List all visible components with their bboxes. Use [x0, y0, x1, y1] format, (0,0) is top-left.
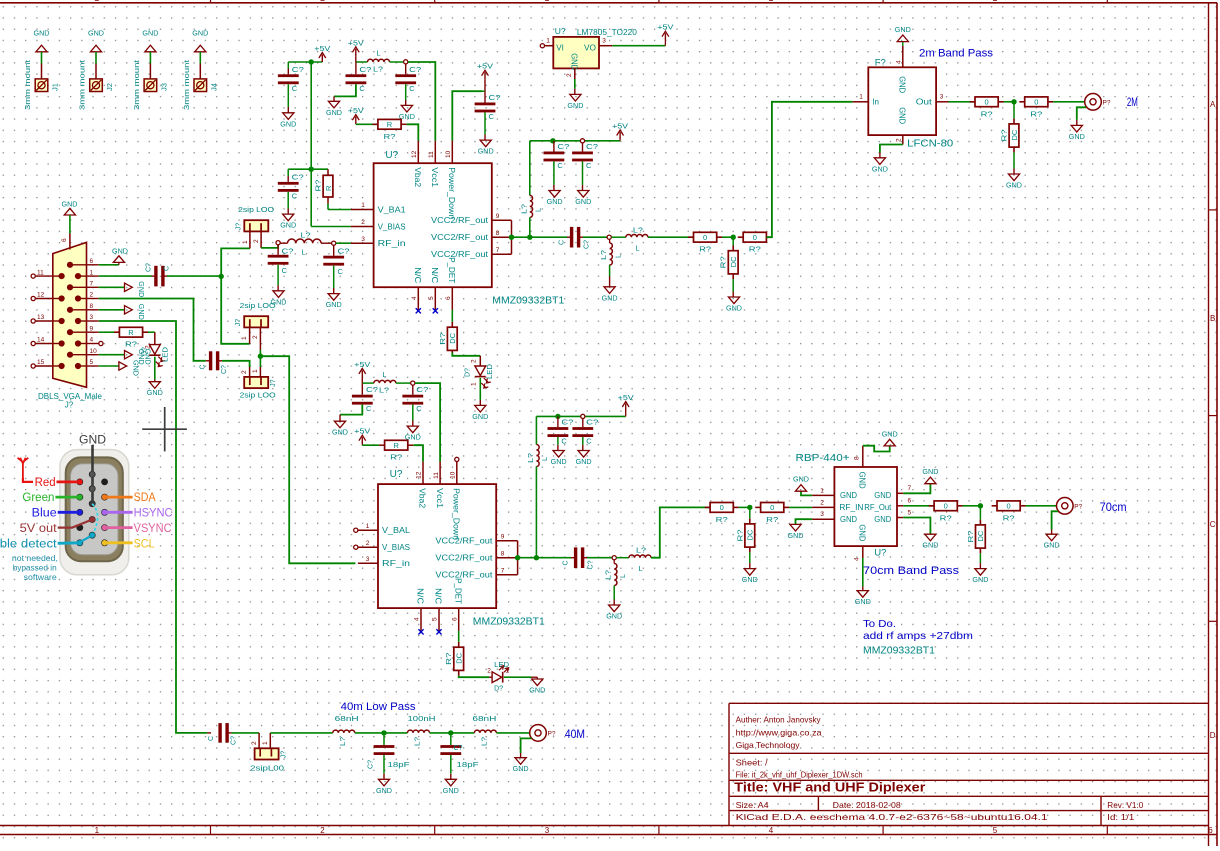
- node junction feed inductor: [527, 235, 532, 240]
- svg-text:GND: GND: [131, 360, 140, 377]
- wire DB15 pin6 to GND flag: [99, 262, 119, 264]
- svg-text:1: 1: [506, 668, 510, 675]
- inductor L? (2m series): [611, 225, 648, 252]
- svg-text:0: 0: [770, 503, 774, 512]
- svg-text:2: 2: [366, 540, 370, 547]
- svg-text:3: 3: [545, 826, 550, 835]
- capacitor C? (pin2 coupling C7): [200, 351, 229, 374]
- title block text: title: [734, 781, 925, 795]
- ground flag at RBP pin 1: [793, 475, 812, 496]
- svg-text:C?: C?: [561, 418, 573, 427]
- svg-text:L: L: [639, 564, 643, 573]
- ground below rail B cap1: [547, 191, 564, 207]
- label 70cm Band Pass: [863, 565, 960, 577]
- svg-text:GND: GND: [147, 388, 164, 397]
- F? pin 3 Out stub: [936, 94, 948, 102]
- svg-text:R?: R?: [384, 132, 396, 141]
- wire junction up to jumper J1 pin1: [221, 231, 250, 276]
- wire resistor to LED D?: [148, 332, 155, 344]
- svg-text:R?: R?: [313, 180, 322, 192]
- svg-text:9: 9: [90, 325, 94, 332]
- svg-text:1: 1: [546, 38, 550, 45]
- ground flag at DB15 pin 6: [112, 246, 129, 262]
- svg-text:C: C: [416, 404, 422, 413]
- svg-text:2: 2: [252, 335, 259, 339]
- photo HSYNC label: [102, 508, 173, 520]
- U1 left pins 1,2,3: [351, 202, 406, 248]
- svg-text:RBP-440+: RBP-440+: [796, 453, 850, 464]
- svg-text:R?: R?: [1003, 513, 1015, 522]
- svg-text:14: 14: [37, 337, 45, 344]
- svg-text:GND: GND: [898, 76, 907, 93]
- svg-text:GND: GND: [79, 435, 106, 447]
- svg-text:11: 11: [37, 269, 44, 276]
- svg-text:8: 8: [496, 230, 500, 237]
- svg-text:2sip LOO: 2sip LOO: [238, 205, 274, 214]
- node junction rail B: [550, 138, 555, 143]
- svg-text:3: 3: [940, 94, 944, 101]
- svg-text:software: software: [24, 572, 57, 582]
- inductor L? (U1 +5V feed choke): [519, 141, 542, 237]
- photo SDA label: [102, 492, 156, 504]
- svg-text:DC: DC: [448, 332, 457, 343]
- label 2m Band Pass: [919, 48, 994, 60]
- resistor R? (2m series 0 ohm 1): [688, 232, 722, 253]
- wire junction down to jumper J3 pin1: [259, 356, 261, 377]
- node junction U1 outputs tied: [509, 235, 514, 240]
- svg-text:4: 4: [769, 826, 774, 835]
- wire RBP RF_Out to resistor: [903, 505, 934, 507]
- svg-text:0: 0: [985, 98, 989, 107]
- svg-text:3: 3: [361, 236, 365, 243]
- title block text: rev: [1107, 800, 1143, 810]
- wire F? out to resistor: [949, 101, 976, 103]
- pin circle rail B cap2: [580, 139, 584, 143]
- svg-text:3mm mount: 3mm mount: [80, 60, 87, 110]
- capacitor C? 18pF (40m C1): [368, 733, 411, 779]
- wire bracket to feed junction: [512, 236, 530, 238]
- svg-text:0: 0: [1034, 98, 1038, 107]
- svg-text:L: L: [635, 244, 639, 253]
- power +5V (rail C): [618, 393, 634, 416]
- wire junction down to V_BIAS node: [310, 62, 312, 169]
- svg-text:GND: GND: [443, 786, 460, 795]
- connector P? 70cm BNC: [1057, 498, 1083, 515]
- svg-text:6: 6: [445, 296, 452, 300]
- svg-text:VCC2/RF_out: VCC2/RF_out: [431, 250, 489, 259]
- svg-text:2m Band Pass: 2m Band Pass: [919, 48, 994, 60]
- svg-text:N/C: N/C: [413, 267, 422, 283]
- RBP pin 8 stub top: [854, 446, 863, 467]
- ground below 2M BNC: [1069, 125, 1086, 140]
- svg-text:LFCN-80: LFCN-80: [907, 139, 953, 150]
- photo VGA connector shell: [60, 450, 129, 575]
- svg-text:6: 6: [90, 258, 94, 265]
- svg-text:J3: J3: [159, 83, 168, 91]
- svg-text:R?: R?: [981, 109, 993, 118]
- wire LED to ground: [504, 677, 538, 679]
- svg-text:GND: GND: [332, 428, 349, 437]
- svg-text:4: 4: [90, 337, 94, 344]
- svg-text:GND: GND: [922, 541, 939, 550]
- ground below rail C cap2: [576, 451, 593, 467]
- svg-text:RF_IN: RF_IN: [839, 503, 863, 512]
- op-amp U? MMZ09332BT1 (upper amplifier U1) body: [374, 150, 565, 307]
- svg-text:C?: C?: [588, 560, 595, 569]
- svg-text:70cm Band Pass: 70cm Band Pass: [863, 565, 960, 577]
- svg-text:GND: GND: [874, 515, 891, 524]
- svg-text:V_BA1: V_BA1: [378, 205, 407, 214]
- svg-text:6: 6: [908, 498, 912, 505]
- svg-text:R?: R?: [735, 530, 744, 542]
- svg-text:GND: GND: [874, 491, 891, 500]
- power +5V (LM7805 output): [657, 23, 673, 46]
- svg-text:A: A: [1210, 100, 1216, 109]
- resistor R? (U2 P_DET series DC): [444, 642, 463, 676]
- svg-text:R?: R?: [125, 340, 137, 349]
- power +5V (rail A): [314, 44, 330, 62]
- wire to junction 70cm out: [963, 505, 981, 507]
- U1 right pins 9,8,7 VCC2/RF_out: [431, 213, 512, 259]
- svg-text:12: 12: [37, 292, 45, 299]
- svg-text:8: 8: [854, 456, 861, 460]
- svg-text:L?: L?: [605, 570, 612, 580]
- wire VO to +5V: [612, 45, 665, 47]
- photo dashed bypass curve: [92, 504, 97, 536]
- svg-text:Sheet: /: Sheet: /: [736, 757, 769, 767]
- resistor R? (2m out series 2): [1019, 97, 1053, 118]
- U2 top pins 12,11,10: [416, 462, 461, 540]
- svg-text:C: C: [557, 161, 563, 170]
- svg-text:Vcc1: Vcc1: [435, 488, 444, 509]
- svg-text:+5V: +5V: [354, 427, 370, 436]
- svg-text:+5V: +5V: [348, 38, 364, 47]
- wire inductor to U1 pin 3: [336, 242, 351, 244]
- photo note not needed: [12, 553, 58, 582]
- resistor R? (2m out shunt DC): [1000, 102, 1019, 174]
- resistor R? (70cm out shunt DC): [966, 506, 985, 569]
- U2 left pins 1,2,3: [354, 523, 411, 568]
- ground below PowerDown cap: [478, 140, 495, 156]
- wire +5V rail C: [536, 415, 558, 417]
- svg-text:VI: VI: [556, 44, 564, 53]
- svg-text:0: 0: [703, 233, 707, 242]
- svg-text:3mm mount: 3mm mount: [134, 60, 141, 110]
- svg-text:3mm mount: 3mm mount: [25, 60, 32, 110]
- svg-text:R?: R?: [699, 245, 711, 254]
- svg-text:C: C: [200, 364, 207, 369]
- node junction pin1 net: [219, 274, 224, 279]
- svg-text:GND: GND: [972, 575, 989, 584]
- svg-text:GND: GND: [62, 199, 79, 208]
- ground below 70cm shunt inductor: [606, 605, 623, 621]
- svg-text:DC: DC: [746, 529, 755, 540]
- svg-text:GND: GND: [529, 686, 546, 695]
- svg-text:Id: 1/1: Id: 1/1: [1107, 812, 1134, 822]
- svg-text:L?: L?: [373, 65, 383, 74]
- ground flag at DB15 pin 10: [99, 349, 153, 366]
- svg-text:C: C: [561, 437, 567, 446]
- svg-text:J?: J?: [235, 223, 242, 231]
- svg-text:GND: GND: [376, 786, 393, 795]
- svg-text:C?: C?: [282, 246, 294, 255]
- svg-text:C?: C?: [557, 142, 569, 151]
- editor crosshair cursor: [142, 407, 187, 451]
- svg-text:HSYNC: HSYNC: [134, 508, 173, 520]
- photo SCL label: [102, 538, 155, 550]
- svg-text:GND: GND: [1006, 181, 1023, 190]
- photo Green label: [22, 492, 82, 504]
- svg-text:DC: DC: [455, 652, 464, 663]
- svg-text:3: 3: [820, 511, 824, 518]
- svg-text:C?: C?: [454, 745, 463, 752]
- pin circle 2m node: [607, 235, 611, 239]
- svg-text:40m Low Pass: 40m Low Pass: [341, 701, 417, 713]
- svg-text:R?: R?: [390, 453, 402, 462]
- svg-text:C?: C?: [368, 760, 375, 769]
- wire RBP pin4 to ground: [862, 558, 864, 591]
- op-amp U? MMZ09332BT1 (lower amplifier U2) body: [378, 469, 545, 628]
- svg-text:R?: R?: [719, 256, 728, 268]
- ground below U1 LED: [472, 405, 489, 421]
- svg-text:GND: GND: [726, 304, 743, 313]
- resistor R? (70cm out series 1): [929, 501, 963, 522]
- photo VGA pin holes: [76, 471, 108, 546]
- LED D? (U2 power detect): [487, 662, 509, 693]
- svg-text:0: 0: [720, 503, 724, 512]
- svg-text:Blue: Blue: [32, 508, 57, 520]
- svg-text:http://www.giga.co.za: http://www.giga.co.za: [736, 727, 822, 737]
- no-connect X at U2 pin 5: [436, 629, 441, 634]
- svg-text:Vba2: Vba2: [418, 488, 427, 509]
- wire bracket to feed junction U2: [518, 557, 537, 559]
- svg-text:GND: GND: [567, 101, 584, 110]
- svg-text:U?: U?: [555, 26, 566, 36]
- ground GND above DB15: [62, 199, 79, 233]
- svg-text:C?: C?: [292, 172, 304, 181]
- title block: [729, 703, 1209, 825]
- connector J? DBLS_VGA_Male body: [53, 242, 87, 387]
- capacitor C? (40m input coupling): [208, 723, 238, 745]
- power +5V (filter B): [348, 38, 364, 56]
- jumper J? 2sip LOO (middle): [235, 301, 276, 340]
- svg-text:C: C: [208, 736, 215, 741]
- svg-text:L: L: [376, 49, 380, 58]
- svg-text:VCC2/RF_out: VCC2/RF_out: [431, 216, 489, 225]
- wire U1 pin10 PowerDown to +5V node: [452, 91, 482, 141]
- wire filtered +5V to U1 pin 11 Vcc1: [408, 62, 435, 141]
- svg-text:Title: VHF and UHF Diplexer: Title: VHF and UHF Diplexer: [734, 781, 925, 795]
- photo Red label: [35, 477, 83, 489]
- wire RBP pin8 to ground flag: [863, 446, 890, 452]
- title block text: kicad version: [736, 812, 1048, 822]
- wire LED to ground: [154, 357, 156, 382]
- svg-text:DC: DC: [729, 256, 738, 267]
- svg-text:C: C: [282, 266, 288, 275]
- wire DB15 pin9 to resistor: [99, 331, 115, 333]
- svg-text:R: R: [128, 328, 134, 337]
- svg-text:2: 2: [90, 292, 94, 299]
- svg-text:V_BAL: V_BAL: [382, 526, 411, 535]
- svg-text:L: L: [620, 574, 627, 578]
- svg-text:D?: D?: [494, 686, 503, 693]
- svg-text:GND: GND: [922, 467, 939, 476]
- svg-text:2: 2: [566, 73, 573, 77]
- svg-text:Vcc1: Vcc1: [430, 167, 439, 188]
- resistor R? (Vba2 feed, value R): [356, 119, 407, 140]
- svg-text:MMZ09332BT1: MMZ09332BT1: [473, 616, 545, 628]
- wire filtered +5V to U2 pin 11: [415, 383, 440, 462]
- svg-text:GND: GND: [576, 457, 593, 466]
- capacitor C? (rail B decoupling 1): [544, 141, 570, 191]
- svg-text:P_DET: P_DET: [453, 578, 462, 604]
- svg-text:100nH: 100nH: [408, 714, 436, 723]
- wire 2m chain up to filter F? input: [766, 102, 852, 237]
- inductor L? (U1 RF_in series): [280, 230, 331, 256]
- title block text: id: [1107, 812, 1134, 822]
- svg-text:SCL: SCL: [134, 538, 156, 550]
- svg-text:5V out: 5V out: [20, 523, 58, 535]
- wire R to U1 pin 12 Vba2: [407, 124, 419, 140]
- svg-text:+5V: +5V: [612, 122, 628, 131]
- svg-text:C: C: [1210, 520, 1216, 529]
- svg-text:10: 10: [445, 150, 452, 158]
- svg-text:68nH: 68nH: [335, 714, 359, 723]
- svg-text:11: 11: [428, 151, 435, 158]
- svg-text:L?: L?: [601, 250, 608, 260]
- DB15 left pins 11-15: [31, 269, 53, 368]
- svg-text:ble detect: ble detect: [0, 538, 58, 550]
- RBP pin 1 stub: [812, 487, 834, 495]
- svg-text:10: 10: [90, 348, 98, 355]
- jumper J? 2sip LOO (bottom): [240, 369, 278, 399]
- capacitor C? (2m coupling): [559, 227, 591, 249]
- label 2M: [1127, 95, 1138, 109]
- ground below 40m C1: [376, 779, 393, 795]
- ground below 40M BNC: [513, 758, 530, 774]
- svg-text:D?: D?: [464, 368, 471, 377]
- svg-text:2sipL00: 2sipL00: [250, 764, 284, 773]
- title block text: sheet: [736, 757, 769, 767]
- svg-text:18pF: 18pF: [457, 760, 480, 769]
- ground below cap rail A: [280, 113, 297, 129]
- capacitor C? (V_BA filter): [278, 169, 311, 214]
- ground below F? pin2: [872, 158, 889, 174]
- svg-text:GND: GND: [547, 197, 564, 206]
- wire coupling cap to node: [584, 557, 613, 559]
- node junction +5V rail A: [309, 59, 314, 64]
- node junction U2 outputs tied: [515, 555, 520, 560]
- svg-text:VCC2/RF_out: VCC2/RF_out: [435, 554, 493, 563]
- capacitor C? (rail C decoupling 2): [572, 418, 598, 451]
- svg-text:2sip LOO: 2sip LOO: [240, 390, 276, 399]
- svg-text:MMZ09332BT1: MMZ09332BT1: [863, 644, 935, 656]
- regulator U? LM7805_TO220 body: [553, 26, 637, 70]
- svg-text:0: 0: [753, 233, 757, 242]
- svg-text:C: C: [489, 112, 495, 121]
- node junction 40m node1: [381, 730, 386, 735]
- svg-text:4: 4: [414, 617, 421, 621]
- mounting hole J2: [80, 29, 115, 111]
- resistor R? (70cm shunt DC): [735, 507, 754, 568]
- node junction selected-RF net: [258, 354, 263, 359]
- svg-text:N/C: N/C: [416, 588, 425, 604]
- svg-text:+5V: +5V: [477, 62, 493, 71]
- capacitor C? (70cm coupling): [563, 547, 595, 569]
- inductor L? (U2 +5V filter): [362, 370, 410, 394]
- svg-text:GND: GND: [742, 575, 759, 584]
- node junction 70cm out: [978, 503, 983, 508]
- svg-text:GND: GND: [858, 524, 867, 541]
- wire to RBP-440+ RF_IN: [789, 506, 812, 508]
- svg-text:+5V: +5V: [618, 393, 634, 402]
- wire to 70cm connector: [1026, 505, 1058, 507]
- svg-text:B: B: [1210, 314, 1215, 323]
- title block text: size/date: [736, 800, 901, 810]
- svg-text:2: 2: [251, 741, 258, 745]
- svg-text:C: C: [366, 404, 372, 413]
- photo cable detect label: [0, 532, 95, 550]
- wire cap to jumper J4: [228, 733, 259, 748]
- svg-text:U?: U?: [390, 469, 403, 480]
- svg-text:12: 12: [416, 471, 423, 479]
- photo GND label and lead: [79, 435, 106, 507]
- wire resistor to U1 pin 1: [328, 204, 351, 210]
- svg-text:1: 1: [366, 523, 370, 530]
- svg-text:KiCad E.D.A. eeschema 4.0.7-e: KiCad E.D.A. eeschema 4.0.7-e2-6376~58~u…: [736, 812, 1048, 822]
- svg-text:J2: J2: [105, 83, 114, 91]
- ground below rail B cap2: [575, 191, 592, 207]
- svg-text:7: 7: [496, 247, 500, 254]
- inductor L? (70cm shunt to ground): [605, 560, 627, 605]
- svg-text:3: 3: [602, 38, 606, 45]
- node junction U2 feed inductor: [534, 555, 539, 560]
- svg-text:C?: C?: [409, 65, 421, 74]
- wire rail C to +5V arrow: [558, 415, 626, 417]
- svg-text:L: L: [301, 248, 305, 257]
- capacitor C? 18pF (40m C2): [440, 733, 479, 779]
- ground below 2m shunt inductor: [602, 287, 619, 303]
- svg-text:2: 2: [241, 370, 248, 374]
- mounting hole J4: [184, 29, 219, 111]
- pin circle at inductor left end: [276, 241, 280, 245]
- svg-text:L?: L?: [633, 225, 643, 234]
- ground below filter B cap2: [399, 105, 416, 121]
- svg-text:C?: C?: [221, 365, 228, 374]
- LED D? (DB15 indicator): [142, 345, 170, 367]
- resistor R? (2m out series 1): [970, 97, 1004, 118]
- svg-text:L?: L?: [301, 230, 311, 239]
- svg-text:Giga Technology: Giga Technology: [736, 740, 801, 750]
- wire +5V rail B: [530, 140, 553, 142]
- svg-text:P_DET: P_DET: [447, 257, 456, 283]
- title block text: author: [736, 715, 822, 725]
- wire selected-RF net down to U2 RF_in: [260, 356, 355, 563]
- svg-text:2: 2: [896, 138, 903, 142]
- capacitor C? (U2 filter input): [340, 383, 378, 421]
- LM7805 pin 3 VO stub: [599, 38, 612, 46]
- svg-text:C?: C?: [416, 385, 428, 394]
- svg-text:VSYNC: VSYNC: [134, 523, 172, 535]
- svg-text:P?: P?: [1074, 503, 1082, 510]
- svg-text:+5V: +5V: [657, 23, 673, 32]
- resistor R? (LED series, value R): [114, 327, 148, 348]
- capacitor C? (rail A decoupling): [278, 62, 304, 113]
- svg-text:5: 5: [993, 826, 998, 835]
- wire cap to junction: [164, 275, 221, 277]
- svg-text:D?: D?: [142, 347, 149, 356]
- svg-text:2: 2: [820, 499, 824, 506]
